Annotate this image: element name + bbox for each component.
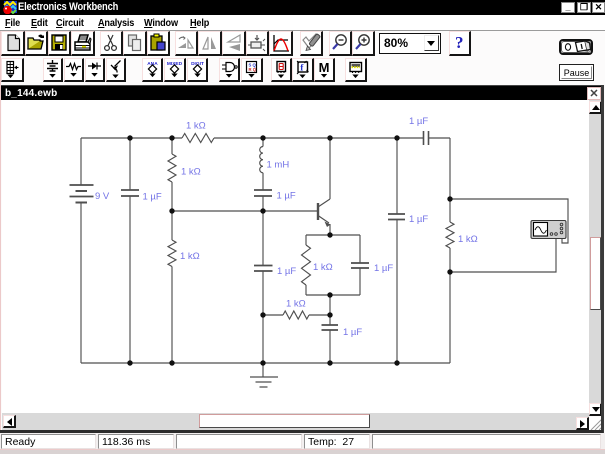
svg-text:M: M — [319, 60, 330, 75]
svg-text:1 kΩ: 1 kΩ — [286, 299, 306, 310]
svg-text:1 kΩ: 1 kΩ — [313, 262, 333, 273]
svg-text:1 µF: 1 µF — [374, 263, 393, 274]
svg-text:1 µF: 1 µF — [409, 214, 428, 225]
svg-text:1 kΩ: 1 kΩ — [458, 234, 478, 245]
svg-text:1 kΩ: 1 kΩ — [181, 167, 201, 178]
svg-text:R Q: R Q — [249, 67, 257, 72]
svg-text:1 µF: 1 µF — [277, 191, 296, 202]
svg-text:1 µF: 1 µF — [143, 192, 162, 203]
svg-text:1 kΩ: 1 kΩ — [186, 121, 206, 132]
svg-text:1 µF: 1 µF — [343, 327, 362, 338]
svg-text:1 µF: 1 µF — [277, 266, 296, 277]
svg-text:9 V: 9 V — [95, 191, 110, 202]
svg-text:1 kΩ: 1 kΩ — [180, 251, 200, 262]
svg-text:1 µF: 1 µF — [409, 116, 428, 127]
svg-text:1 mH: 1 mH — [267, 160, 290, 171]
